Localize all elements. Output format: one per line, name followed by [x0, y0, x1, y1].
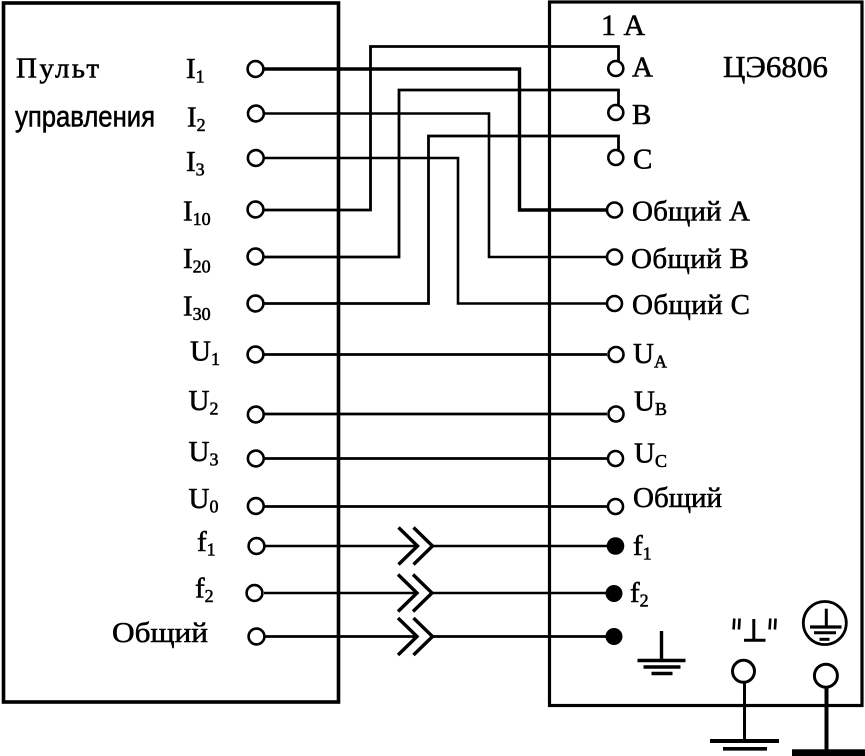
terminal circle Общий left	[249, 629, 265, 645]
terminal dot f2	[606, 585, 623, 602]
terminal circle Общий A	[607, 203, 622, 218]
terminal dot f1	[607, 537, 625, 555]
protective earth symbol circled	[803, 602, 846, 645]
wire I2 to Общий B	[264, 114, 607, 258]
ground bar bottom right	[792, 749, 865, 756]
terminal circle Общий right	[608, 499, 623, 514]
wire U3 to UC	[264, 457, 607, 460]
terminal circle U2	[248, 407, 264, 423]
terminal circle U1	[248, 347, 264, 363]
svg-text:Общий: Общий	[112, 617, 208, 649]
terminal circle I30	[248, 296, 264, 312]
wire f1 right segment	[433, 545, 608, 547]
svg-text:Общий: Общий	[633, 482, 722, 514]
right box ЦЭ6806	[550, 2, 863, 706]
cable marker chevrons f2	[398, 575, 432, 612]
svg-text:1 А: 1 А	[601, 9, 646, 42]
svg-text:Общий С: Общий С	[632, 289, 750, 321]
svg-text:ЦЭ6806: ЦЭ6806	[723, 49, 828, 84]
terminal circle UA	[609, 347, 624, 362]
wire f1 left segment	[264, 545, 418, 547]
terminal circle B	[608, 105, 623, 120]
terminal circle protective earth	[814, 664, 837, 687]
svg-text:А: А	[632, 52, 653, 84]
terminal circle I3	[248, 150, 264, 166]
svg-text:управления: управления	[15, 101, 155, 134]
cable marker chevrons Общий	[398, 618, 433, 655]
terminal dot Общий	[606, 628, 623, 645]
terminal circle I10	[248, 202, 264, 218]
svg-text:В: В	[632, 99, 651, 131]
terminal circle U3	[248, 451, 264, 467]
wire f2 right segment	[432, 592, 606, 594]
terminal circle U0	[248, 498, 264, 514]
label quoted perpendicular terminal: left quote	[734, 619, 740, 630]
wire I1 to Общий A	[264, 69, 607, 210]
wire stem perpendicular to ground	[743, 683, 746, 742]
terminal circle f1 left	[249, 538, 265, 554]
wire I3 to Общий C	[264, 158, 607, 304]
ground symbol inside right box	[638, 631, 686, 674]
terminal circle A	[608, 61, 623, 76]
terminal circle I1	[248, 61, 264, 77]
terminal circle f2 left	[247, 585, 263, 601]
perpendicular glyph	[744, 619, 766, 640]
wire I10 to A	[264, 47, 619, 211]
wire Общий left segment	[264, 635, 417, 638]
wire stem protective earth to ground	[825, 687, 829, 752]
left box Пульт управления	[4, 3, 339, 702]
terminal circle UC	[608, 451, 623, 466]
terminal circle C	[608, 150, 623, 165]
svg-text:Пульт: Пульт	[16, 53, 101, 85]
svg-text:Общий А: Общий А	[632, 196, 750, 228]
wire I20 to B	[264, 90, 619, 257]
wire I30 to C	[264, 136, 619, 304]
terminal circle Общий C	[607, 296, 622, 311]
terminal circle Общий B	[607, 250, 622, 265]
wire U1 to UA	[264, 353, 607, 356]
wire U0 to Общий	[264, 505, 607, 508]
cable marker chevrons f1	[399, 528, 433, 565]
wire U2 to UB	[264, 413, 607, 416]
svg-text:Общий В: Общий В	[631, 243, 749, 275]
wire f2 left segment	[264, 592, 417, 594]
terminal circle UB	[609, 407, 624, 422]
wire Общий right segment	[433, 635, 607, 638]
terminal circle I20	[248, 249, 264, 265]
svg-text:С: С	[633, 144, 652, 176]
ground symbol bottom left of right pair	[710, 741, 779, 749]
label quoted perpendicular terminal: right quote	[770, 619, 776, 630]
terminal circle perpendicular	[733, 660, 755, 682]
terminal circle I2	[248, 106, 264, 122]
